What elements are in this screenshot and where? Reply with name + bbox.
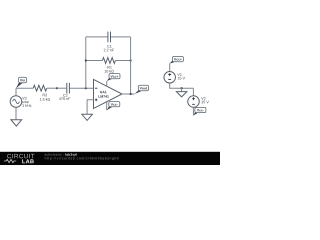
net flag Vcc- on V2 <box>193 107 206 115</box>
net flag Vcc+ on V1 <box>169 57 183 64</box>
footer logo zigzag <box>4 159 16 162</box>
wire V2 bottom stub <box>192 107 194 115</box>
junction dot output/feedback <box>130 93 132 95</box>
wire V3 to ground <box>15 107 17 119</box>
resistor R1 <box>102 58 115 73</box>
wire top row left <box>86 36 108 38</box>
junction dot between R2 and C2 <box>56 87 58 89</box>
voltage source V1 15 V <box>164 72 185 84</box>
footer logo LAB <box>22 159 33 163</box>
wire op-amp output <box>122 93 135 95</box>
voltage source V3 sine 1 kHz <box>10 96 31 108</box>
junction dot node A (inverting input / feedback) <box>85 87 87 89</box>
footer schematic name <box>45 153 77 156</box>
wire Vin corner to R2 <box>16 87 33 89</box>
wire V3 top stem <box>15 88 17 96</box>
footer url <box>45 157 119 160</box>
net flag Vcc+ on op-amp <box>107 74 120 81</box>
wire V2 top stem <box>192 88 194 96</box>
wire top row right <box>111 36 131 38</box>
net flag Vout <box>135 85 149 94</box>
wire R2 to node <box>47 87 57 89</box>
resistor R2 <box>33 85 50 100</box>
wire feedback left vertical <box>85 37 87 88</box>
wire V1 top stub <box>169 64 171 72</box>
junction dot R1 left <box>85 59 87 61</box>
ground below op-amp plus input <box>82 114 93 120</box>
ground below V3 <box>11 120 22 126</box>
capacitor C1 <box>104 32 114 52</box>
wire op-amp plus input to ground <box>87 100 93 115</box>
capacitor C2 <box>59 83 70 100</box>
wire R1 right lead <box>115 60 130 62</box>
ground below rail <box>176 92 187 97</box>
net flag Vcc- on op-amp <box>107 102 120 111</box>
wire node to C2 <box>57 87 66 89</box>
wire V1 bottom to supply rail <box>170 83 194 88</box>
net flag Vin <box>16 77 27 88</box>
junction dot R1 right <box>130 59 132 61</box>
op-amp Vcc- pin stub <box>106 101 108 110</box>
wire feedback right vertical <box>130 37 132 94</box>
ground stub on rail <box>181 88 183 91</box>
op-amp OA1 LM741 <box>94 79 123 108</box>
footer logo CIRCUIT <box>7 154 34 158</box>
op-amp Vcc+ pin stub <box>106 81 108 86</box>
wire R1 left lead <box>86 60 103 62</box>
wire C2 to op-amp inverting input <box>70 87 94 89</box>
voltage source V2 15 V <box>188 96 209 108</box>
junction dot supply rail <box>181 87 183 89</box>
footer bar <box>0 152 220 165</box>
